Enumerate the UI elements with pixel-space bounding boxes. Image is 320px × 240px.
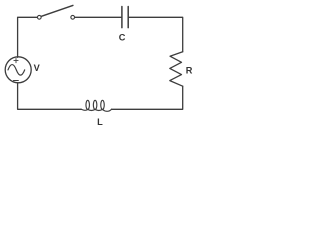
capacitor C plate left xyxy=(121,7,123,28)
svg-text:L: L xyxy=(97,117,103,127)
inductor L coil loop 2 xyxy=(93,100,97,109)
resistor R zigzag xyxy=(170,52,183,86)
switch blade xyxy=(41,5,73,16)
wire top-left xyxy=(18,17,38,57)
svg-text:R: R xyxy=(186,65,193,75)
wire switch to capacitor xyxy=(75,16,121,18)
inductor L coil loop 1 xyxy=(86,100,90,109)
inductor L coil base arcs xyxy=(81,109,112,111)
AC source V circle xyxy=(5,57,31,83)
inductor L coil loop 3 xyxy=(101,100,105,109)
svg-text:V: V xyxy=(34,63,41,73)
wire capacitor to top-right corner xyxy=(129,17,183,52)
sine wave inside source xyxy=(8,65,25,76)
switch contact left xyxy=(37,15,41,19)
switch contact right xyxy=(71,15,75,19)
svg-text:C: C xyxy=(119,33,126,43)
plus sign xyxy=(14,59,18,63)
wire coil to bottom-left corner xyxy=(18,83,82,110)
minus sign xyxy=(13,80,18,82)
capacitor C plate right xyxy=(127,7,129,28)
wire resistor to bottom-right corner xyxy=(112,86,183,109)
